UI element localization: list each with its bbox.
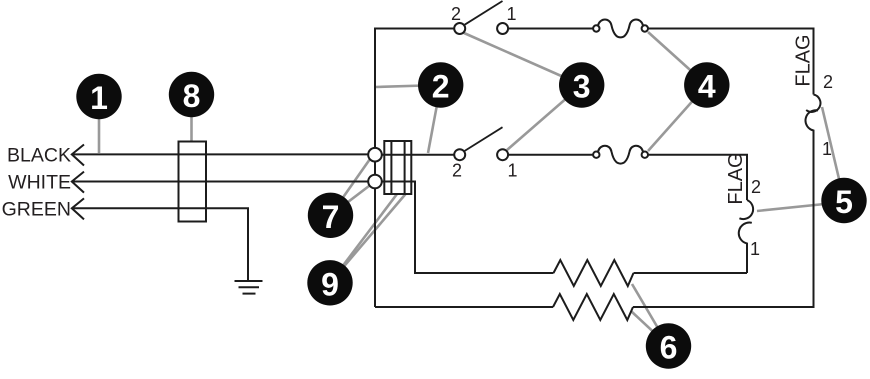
svg-text:1: 1 [750, 239, 760, 259]
bottom wire left to lower element [375, 306, 553, 308]
terminal block [384, 141, 411, 194]
leader from callout 8 to strain relief [190, 116, 193, 141]
svg-text:2: 2 [451, 4, 461, 24]
wire contact1 to upper protector [508, 28, 593, 30]
enclosure left edge wire [374, 29, 376, 308]
right flag terminal upper hook [806, 95, 820, 112]
wire contact1 to lower protector [508, 154, 593, 156]
lower switch blade [465, 127, 503, 151]
svg-text:1: 1 [90, 80, 108, 116]
leader from callout 7 to white terminal [331, 186, 370, 215]
wire WHITE lead-in [72, 181, 369, 183]
leader from callout 9 to terminal block bottom b [330, 194, 406, 283]
white terminal circle [368, 175, 382, 189]
svg-text:7: 7 [322, 199, 340, 235]
lower heating element (resistor) [553, 294, 633, 320]
wire GREEN lead-in [72, 208, 248, 281]
leader from callout 3 to lower switch contact 1 [507, 85, 582, 150]
svg-text:1: 1 [507, 161, 517, 181]
leader from callout 9 to terminal block bottom a [330, 194, 397, 283]
leader from callout 7 to black terminal [331, 159, 371, 215]
svg-text:WHITE: WHITE [8, 172, 71, 194]
svg-text:5: 5 [835, 184, 853, 220]
top edge wire left of switch [374, 28, 455, 30]
wire protector to top-right corner [648, 29, 814, 95]
svg-text:FLAG: FLAG [793, 34, 815, 86]
callout 8 [169, 72, 214, 117]
leader from callout 5 to left flag terminal [757, 202, 844, 211]
lower thermal protector [593, 146, 648, 164]
left flag terminal upper hook [739, 200, 753, 219]
callout 5 [821, 178, 866, 223]
leader from callout 2 to line wire after terminal block [428, 85, 441, 153]
svg-text:1: 1 [506, 4, 516, 24]
lower switch contact 1 [497, 149, 508, 160]
leader from callout 6 to upper element [632, 284, 669, 346]
wire upper element to left flag bottom [634, 272, 748, 274]
leader from callout 3 to upper switch contact 2 [464, 33, 582, 85]
svg-text:6: 6 [660, 330, 678, 366]
arrowhead BLACK [72, 145, 84, 166]
callout 6 [646, 323, 691, 368]
svg-text:2: 2 [823, 72, 833, 92]
leader from callout 2 to left box edge wire [376, 85, 441, 87]
svg-text:2: 2 [432, 69, 450, 105]
leader from callout 4 to lower thermal protector [648, 85, 707, 151]
leader from callout 4 to upper thermal protector [648, 32, 707, 85]
svg-text:FLAG: FLAG [725, 152, 747, 204]
svg-text:3: 3 [573, 69, 591, 105]
right flag terminal lower hook [806, 110, 819, 307]
strain relief (item 8) [179, 142, 207, 222]
svg-text:9: 9 [321, 266, 339, 302]
callout 4 [684, 62, 729, 107]
lower switch contact 2 [454, 149, 465, 160]
svg-text:8: 8 [183, 78, 201, 114]
callout 3 [559, 62, 604, 107]
upper switch contact 1 [497, 23, 508, 34]
upper switch blade [465, 1, 503, 25]
row2 wire from black terminal through block to switch [375, 154, 454, 156]
wire lower element to right flag bottom [633, 306, 815, 308]
svg-text:1: 1 [822, 139, 832, 159]
callout 7 [308, 193, 353, 238]
callout 2 [418, 62, 463, 107]
black terminal circle [368, 148, 382, 162]
upper thermal protector [593, 20, 648, 38]
ground symbol [235, 281, 263, 294]
arrowhead WHITE [72, 172, 84, 193]
wire lower protector to left flag [648, 155, 747, 200]
white wire to down leg and heater feed [382, 182, 554, 274]
svg-text:BLACK: BLACK [7, 145, 71, 167]
left flag terminal lower hook [739, 223, 752, 273]
callout 9 [307, 260, 352, 305]
wire BLACK lead-in [72, 153, 369, 155]
svg-text:2: 2 [452, 161, 462, 181]
arrowhead GREEN [72, 198, 84, 219]
leader from callout 1 to black wire [98, 118, 101, 153]
upper heating element (resistor) [554, 260, 634, 286]
svg-text:2: 2 [751, 177, 761, 197]
upper switch contact 2 [454, 23, 465, 34]
callout 1 [76, 74, 121, 119]
svg-text:GREEN: GREEN [2, 198, 71, 220]
leader from callout 6 to lower element [631, 311, 669, 346]
svg-text:4: 4 [698, 69, 716, 105]
leader from callout 5 to right flag terminal [822, 107, 844, 200]
